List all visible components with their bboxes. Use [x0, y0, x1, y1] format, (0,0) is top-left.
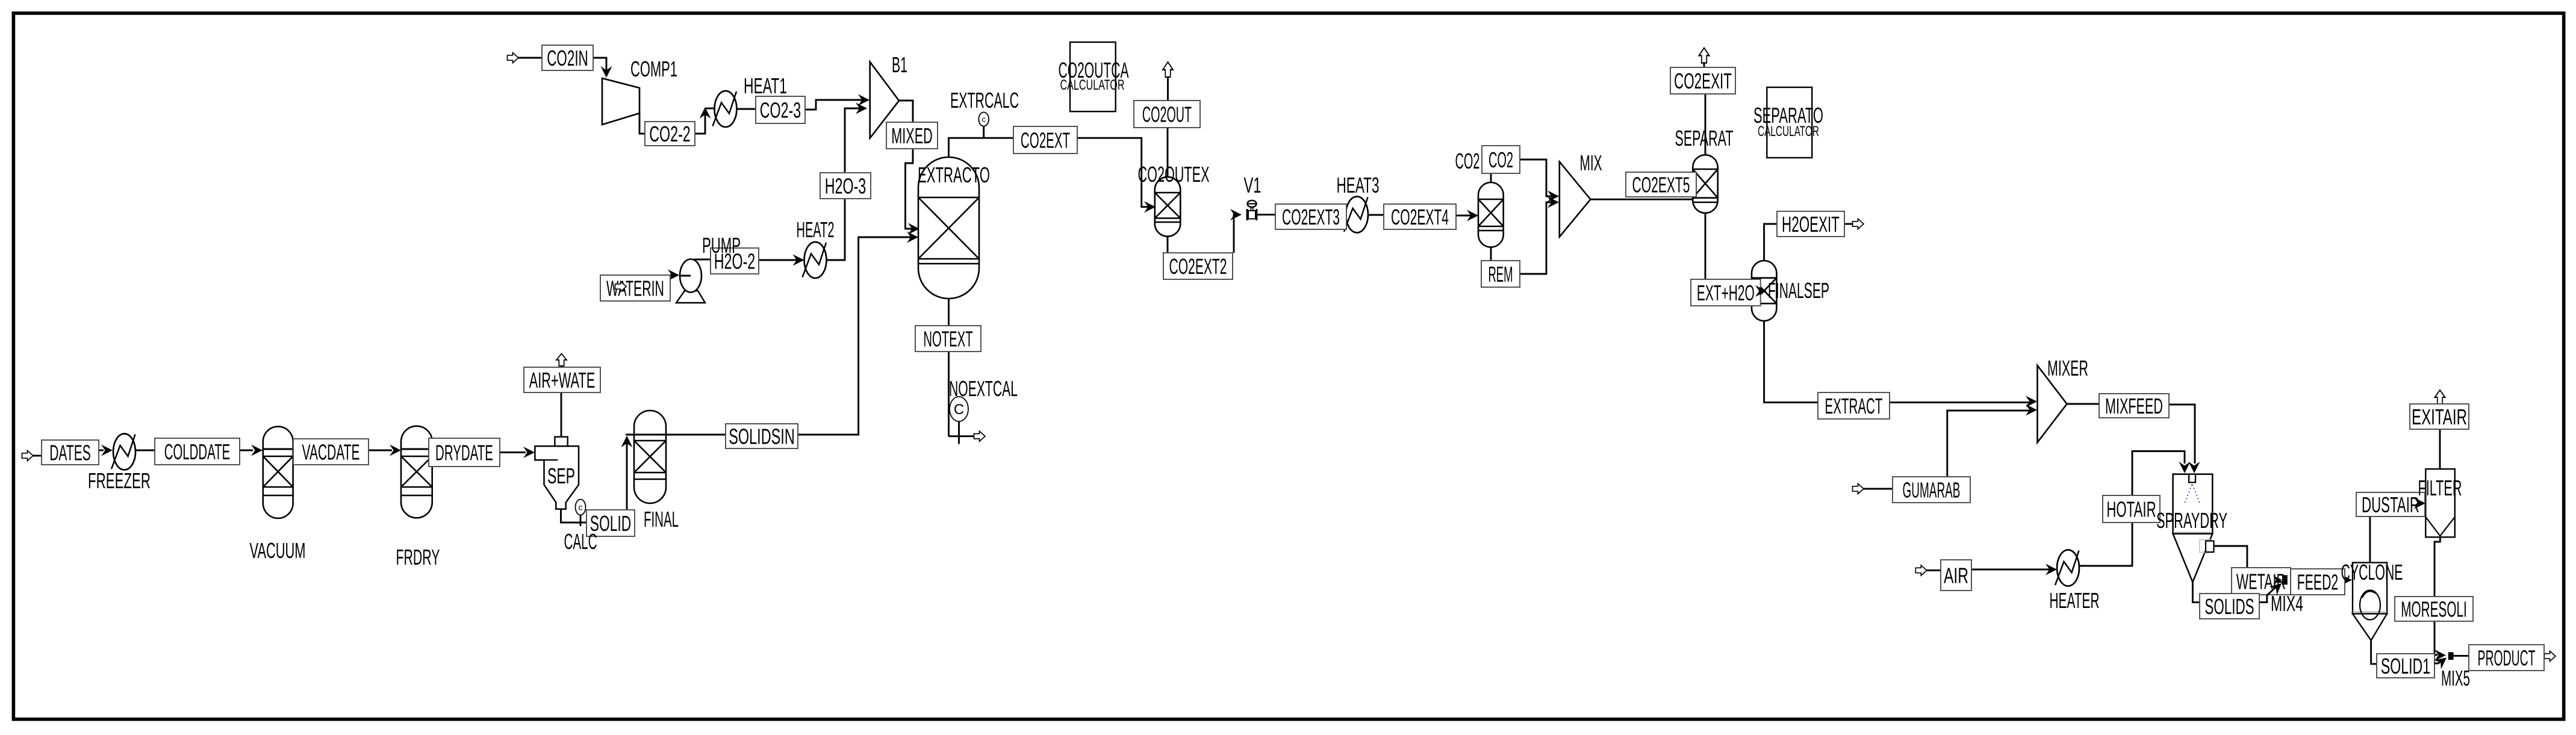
svg-text:CO2EXT5: CO2EXT5 [1632, 172, 1690, 197]
svg-text:FREEZER: FREEZER [88, 468, 151, 493]
svg-text:CO2OUT: CO2OUT [1142, 102, 1192, 126]
svg-text:SOLIDS: SOLIDS [2204, 594, 2254, 619]
svg-text:DUSTAIR: DUSTAIR [2362, 492, 2419, 517]
svg-text:HEAT1: HEAT1 [744, 73, 787, 98]
svg-text:EXTRACT: EXTRACT [1825, 394, 1883, 418]
svg-text:MIX4: MIX4 [2271, 591, 2303, 616]
svg-text:SOLID1: SOLID1 [2381, 654, 2430, 678]
svg-text:EXT+H2O: EXT+H2O [1697, 281, 1755, 305]
svg-text:PRODUCT: PRODUCT [2478, 645, 2536, 670]
svg-text:VACUUM: VACUUM [250, 538, 306, 563]
svg-text:CALC: CALC [564, 529, 597, 554]
svg-text:CO2EXT: CO2EXT [1021, 128, 1070, 152]
svg-text:CO2-2: CO2-2 [649, 122, 691, 146]
svg-text:CO2: CO2 [1489, 147, 1513, 172]
svg-text:NOEXTCAL: NOEXTCAL [949, 376, 1018, 401]
svg-text:C: C [954, 402, 964, 418]
svg-text:EXTRACTO: EXTRACTO [918, 163, 990, 187]
svg-text:H2OEXIT: H2OEXIT [1782, 212, 1840, 237]
svg-text:CO2: CO2 [1455, 149, 1480, 173]
svg-text:CO2-3: CO2-3 [760, 98, 801, 122]
svg-text:FRDRY: FRDRY [396, 545, 440, 569]
svg-text:SPRAYDRY: SPRAYDRY [2156, 508, 2227, 533]
svg-text:CO2EXIT: CO2EXIT [1674, 69, 1732, 93]
svg-text:FINAL: FINAL [644, 507, 679, 532]
svg-text:FEED2: FEED2 [2297, 569, 2339, 594]
svg-text:MIX5: MIX5 [2441, 666, 2470, 690]
svg-text:SEP: SEP [547, 464, 575, 488]
svg-text:c: c [982, 115, 986, 124]
svg-text:SEPARAT: SEPARAT [1675, 126, 1734, 150]
svg-text:CO2OUTEX: CO2OUTEX [1138, 162, 1210, 187]
svg-text:NOTEXT: NOTEXT [923, 326, 972, 351]
svg-text:HEAT3: HEAT3 [1337, 173, 1380, 197]
svg-text:CO2EXT2: CO2EXT2 [1169, 254, 1227, 279]
svg-text:GUMARAB: GUMARAB [1903, 477, 1961, 502]
svg-text:COMP1: COMP1 [630, 57, 677, 81]
svg-text:CO2IN: CO2IN [547, 46, 588, 70]
svg-text:c: c [579, 502, 583, 512]
svg-text:MORESOLI: MORESOLI [2401, 597, 2467, 621]
svg-text:CALCULATOR: CALCULATOR [1758, 123, 1819, 140]
svg-text:MIXFEED: MIXFEED [2105, 394, 2163, 418]
svg-text:MIXED: MIXED [891, 123, 933, 148]
svg-text:CO2EXT4: CO2EXT4 [1391, 205, 1449, 229]
svg-text:V1: V1 [1244, 173, 1262, 197]
svg-text:AIR: AIR [1944, 563, 1968, 588]
svg-text:FINALSEP: FINALSEP [1768, 278, 1829, 303]
svg-text:DATES: DATES [49, 440, 91, 465]
svg-text:EXITAIR: EXITAIR [2412, 405, 2467, 429]
svg-text:H2O-3: H2O-3 [825, 173, 866, 198]
svg-text:SOLIDSIN: SOLIDSIN [729, 424, 795, 448]
svg-text:EXTRCALC: EXTRCALC [950, 88, 1019, 113]
svg-text:FILTER: FILTER [2418, 476, 2462, 500]
svg-text:B1: B1 [892, 52, 907, 77]
svg-text:COLDDATE: COLDDATE [164, 439, 231, 464]
svg-text:CYCLONE: CYCLONE [2341, 560, 2403, 585]
svg-text:DRYDATE: DRYDATE [435, 440, 493, 465]
svg-text:REM: REM [1488, 262, 1513, 287]
svg-text:HOTAIR: HOTAIR [2106, 497, 2156, 521]
svg-text:HEATER: HEATER [2050, 588, 2100, 613]
svg-text:PUMP: PUMP [702, 233, 741, 258]
svg-text:VACDATE: VACDATE [302, 439, 360, 464]
svg-text:AIR+WATE: AIR+WATE [529, 368, 596, 392]
svg-text:HEAT2: HEAT2 [797, 217, 835, 242]
svg-text:CALCULATOR: CALCULATOR [1060, 77, 1125, 93]
svg-text:CO2EXT3: CO2EXT3 [1282, 205, 1340, 229]
svg-text:MIXER: MIXER [2047, 356, 2088, 380]
svg-text:MIX: MIX [1580, 150, 1602, 175]
